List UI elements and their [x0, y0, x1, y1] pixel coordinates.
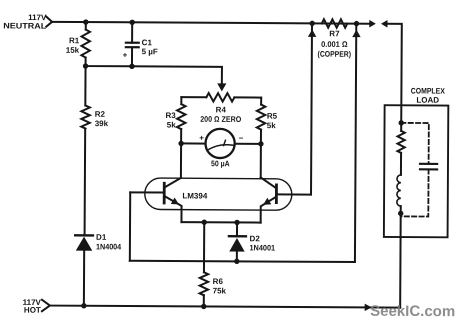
junction load bottom node — [398, 211, 403, 216]
load capacitor dashed branch wires — [401, 123, 429, 217]
svg-text:5 µF: 5 µF — [142, 47, 158, 56]
transistor pair U1 LM394 package outline — [145, 178, 292, 210]
wire top-right segment R7 right node to load corner — [387, 24, 402, 131]
svg-text:R7: R7 — [329, 29, 340, 38]
wire R6 bottom to bottom rail — [203, 295, 205, 306]
wire bridge left vertical (R3 / meter+ / Q1 collector) — [180, 97, 182, 178]
wire D2 top — [236, 222, 238, 236]
svg-text:1N4001: 1N4001 — [249, 243, 275, 252]
svg-text:R3: R3 — [166, 111, 177, 120]
svg-text:5k: 5k — [167, 121, 177, 130]
diode D2 triangle (points up) — [229, 238, 244, 252]
load capacitor plates — [420, 164, 437, 170]
junction R7 right node — [354, 21, 359, 26]
svg-text:75k: 75k — [213, 286, 227, 295]
svg-text:D2: D2 — [250, 234, 261, 243]
svg-text:1N4004: 1N4004 — [96, 242, 122, 251]
transistor Q1 collector diagonal — [165, 178, 181, 187]
junction bottom rail / D1 — [81, 303, 86, 308]
wire second rail R1 bottom to R4 wiper corner — [85, 66, 222, 85]
potentiometer R4 wiper arrow — [217, 83, 226, 91]
svg-text:R4: R4 — [216, 105, 227, 114]
wire Q2 base to corner — [276, 193, 311, 195]
svg-text:+: + — [199, 134, 204, 143]
svg-text:HOT: HOT — [24, 306, 41, 315]
resistor R7 — [322, 19, 348, 28]
junction C1 bottom / rail2 — [129, 64, 134, 69]
svg-text:D1: D1 — [96, 233, 107, 242]
svg-text:50 µA: 50 µA — [211, 159, 230, 168]
resistor R3 — [177, 104, 186, 129]
wire meter row right — [235, 143, 261, 145]
wire emitter rail to R6 — [203, 222, 205, 272]
svg-text:(COPPER): (COPPER) — [318, 50, 352, 59]
wire R2 bottom to D1 — [84, 129, 87, 236]
wire Q2 base vertical to R7 left node — [310, 23, 313, 194]
transistor Q2 emitter arrowhead — [263, 198, 271, 205]
diode D1 (cathode bar) — [75, 234, 93, 236]
svg-text:−: − — [239, 134, 244, 143]
resistor R1 — [81, 30, 90, 58]
transistor Q2 emitter diagonal — [261, 197, 276, 223]
wire D2 bottom to base return wire — [236, 252, 238, 262]
arrow right on bottom rail near load — [365, 304, 372, 312]
junction emitter rail / D2 — [234, 220, 239, 225]
svg-text:+: + — [123, 51, 128, 60]
wire bottom rail (117V HOT net) — [50, 306, 400, 308]
svg-text:R2: R2 — [95, 110, 106, 119]
junction bottom rail / R6 — [201, 304, 206, 309]
transistor Q1 base bar — [163, 183, 166, 203]
arrow up on Q2-base/R7-left wire — [308, 29, 316, 37]
wire load branch between resistor and inductor — [400, 153, 402, 175]
terminal 117V HOT — [42, 300, 50, 311]
wire Q1 base to left loop corner — [130, 191, 164, 193]
svg-text:15k: 15k — [66, 46, 80, 55]
junction bridge right / meter — [258, 141, 263, 146]
junction bridge left / meter — [178, 141, 183, 146]
svg-text:LOAD: LOAD — [416, 96, 439, 105]
transistor Q2 collector diagonal — [261, 177, 276, 187]
resistor R2 — [81, 106, 90, 129]
diode D1 triangle (points up) — [76, 237, 93, 251]
meter M1 scale arc and needle — [209, 145, 233, 150]
wire bridge top right R4 to corner — [234, 96, 261, 98]
terminal 117V NEUTRAL — [46, 17, 52, 27]
arrow left on top-right wire — [381, 20, 388, 28]
svg-text:5k: 5k — [267, 121, 277, 130]
junction D2 / base return wire — [234, 259, 239, 264]
wire base return right vertical to R7 right node — [355, 24, 356, 262]
resistor R5 — [257, 105, 266, 130]
svg-text:R5: R5 — [267, 112, 278, 121]
potentiometer R4 element — [206, 93, 234, 102]
svg-text:R6: R6 — [213, 277, 224, 286]
svg-text:R1: R1 — [69, 36, 80, 45]
wire meter row left — [181, 142, 205, 144]
junction R7 left node — [309, 21, 314, 26]
wire load branch below inductor to bottom rail — [399, 206, 402, 307]
wire R2 branch: rail2 down to R2 — [84, 66, 86, 105]
resistor R6 — [200, 272, 209, 295]
junction emitter rail / R6 — [202, 220, 207, 225]
transistor Q1 emitter diagonal — [165, 196, 182, 222]
svg-text:NEUTRAL: NEUTRAL — [3, 21, 46, 30]
svg-text:C1: C1 — [142, 38, 153, 47]
junction top rail / R1 — [83, 19, 88, 24]
diode D2 cathode bar — [229, 235, 246, 237]
junction load top node — [399, 120, 404, 125]
wire top rail from NEUTRAL terminal to R7 left node — [52, 22, 370, 24]
wire emitter rail — [181, 221, 260, 223]
svg-text:200 Ω ZERO: 200 Ω ZERO — [200, 115, 241, 124]
load resistor element — [397, 131, 404, 153]
transistor Q2 base bar — [275, 185, 278, 203]
wire bridge right vertical (R5 / meter- / Q2 collector) — [260, 98, 262, 178]
svg-text:LM394: LM394 — [182, 191, 208, 200]
load inductor L — [397, 175, 401, 206]
wire base return horizontal — [130, 261, 355, 262]
arrow right on top-right wire — [369, 20, 376, 28]
wire base return left vertical — [129, 192, 131, 260]
svg-text:COMPLEX: COMPLEX — [411, 86, 446, 95]
junction R1 bottom / rail2 — [83, 63, 88, 68]
svg-text:SeekIC.com: SeekIC.com — [370, 303, 455, 320]
capacitor C1 — [126, 43, 139, 48]
complex load box — [384, 105, 448, 237]
svg-text:0.001 Ω: 0.001 Ω — [321, 40, 348, 49]
wire D1 bottom to bottom rail — [83, 251, 85, 306]
meter M1 body — [205, 129, 234, 158]
arrow up on base-return/R7-right wire — [352, 30, 360, 38]
wire bridge top left corner to R4 — [181, 96, 206, 98]
svg-text:39k: 39k — [95, 119, 109, 128]
transistor Q1 emitter arrowhead — [171, 197, 179, 204]
junction top rail / C1 — [129, 20, 134, 25]
